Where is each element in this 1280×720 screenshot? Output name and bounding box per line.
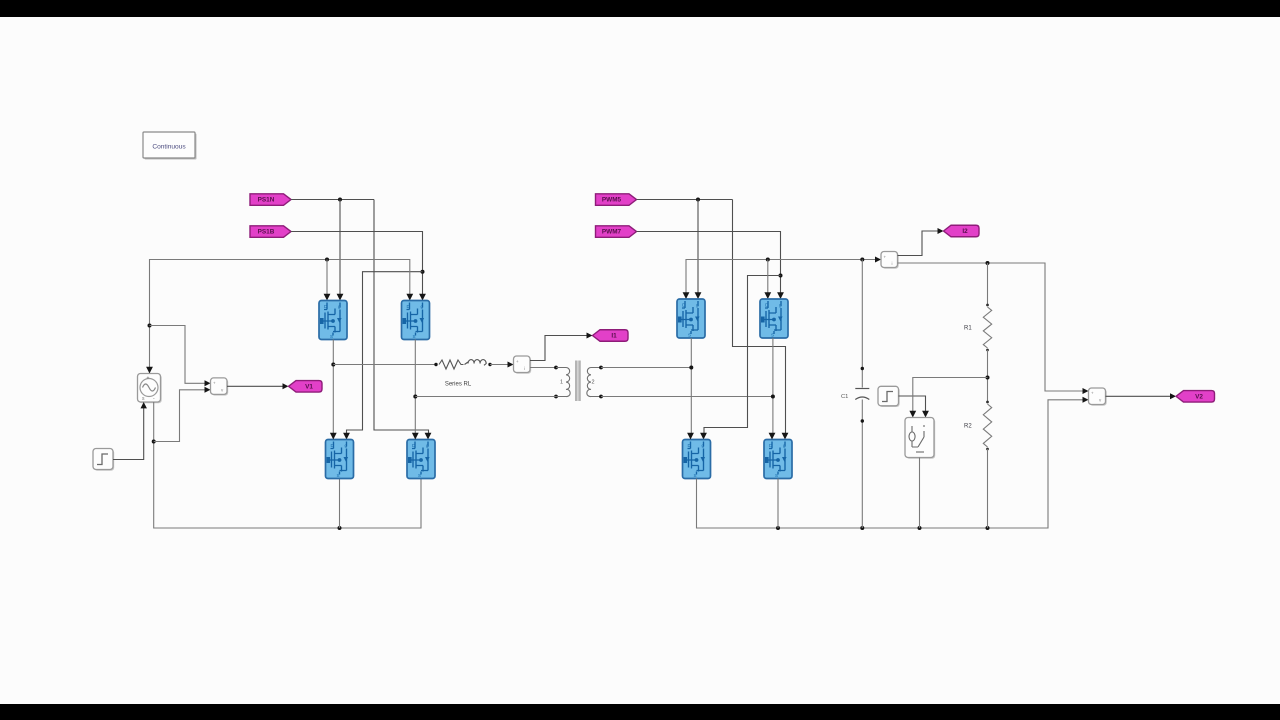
powergui Continuous block	[143, 132, 197, 160]
Step block Step2	[878, 386, 900, 407]
Goto tag I1	[593, 330, 629, 342]
wire to V1 minus input	[154, 390, 208, 442]
svg-text:+: +	[516, 359, 519, 364]
junction bottom rail C1	[860, 526, 864, 530]
svg-text:C1: C1	[841, 394, 848, 400]
junction PWM7 crossover	[779, 274, 783, 278]
MOSFET Q8	[764, 440, 792, 479]
arrowhead V2 goto	[1170, 393, 1176, 399]
arrowhead I2 goto	[938, 228, 944, 234]
circuit breaker block	[905, 418, 935, 459]
svg-text:S: S	[771, 333, 774, 338]
arrowhead V2 minus	[1083, 397, 1089, 403]
wire left DC+ rail	[150, 260, 410, 374]
svg-text:PS1N: PS1N	[258, 197, 275, 204]
junction divider midpoint	[986, 376, 990, 380]
junction bottom rail Q8	[776, 526, 780, 530]
wire I1 signal to tag	[530, 336, 589, 361]
wire source minus down	[154, 402, 421, 528]
arrowhead breaker top	[909, 411, 916, 418]
current measurement I1 block	[514, 356, 532, 374]
svg-text:PWM5: PWM5	[602, 197, 622, 204]
junction secondary top	[689, 366, 693, 370]
From tag PS1N	[250, 194, 291, 206]
terminal Series RL right	[488, 363, 491, 366]
From tag PWM5	[596, 194, 637, 206]
svg-text:PWM7: PWM7	[602, 229, 622, 236]
junction PS1B crossover	[421, 270, 425, 274]
svg-text:+: +	[1091, 391, 1094, 396]
wire right bridge right leg	[772, 338, 774, 436]
arrowhead I1 input	[508, 362, 514, 368]
junction out rail at R1	[986, 261, 990, 265]
svg-text:+: +	[884, 255, 887, 260]
wire PS1N corner to Q4 gate	[374, 200, 429, 437]
Step block Step1	[93, 449, 114, 471]
MOSFET Q1	[319, 301, 347, 340]
wire R1 to R2	[987, 350, 989, 402]
arrowhead Q7 gate	[700, 433, 707, 440]
wire PWM5 to Q5 gate	[697, 200, 699, 296]
svg-text:S: S	[694, 473, 697, 478]
wire I1 out to transformer	[530, 367, 556, 369]
svg-text:+: +	[147, 376, 150, 382]
arrowhead Q2 gate	[419, 294, 426, 301]
arrowhead Q1 gate	[337, 294, 344, 301]
arrowhead Q6 drain	[764, 292, 771, 299]
svg-text:V2: V2	[1195, 394, 1203, 401]
wire right bridge left leg	[690, 338, 692, 436]
From tag PS1B	[250, 226, 291, 238]
svg-text:2: 2	[592, 380, 595, 386]
arrowhead V1 plus	[205, 380, 211, 386]
arrowhead I2 input	[875, 257, 881, 263]
svg-text:S: S	[330, 334, 333, 339]
wire V1 signal out	[227, 385, 285, 387]
current measurement I2 block	[881, 252, 899, 269]
wire right bottom rail	[697, 400, 1086, 528]
svg-text:S: S	[413, 334, 416, 339]
MOSFET Q7	[683, 440, 711, 479]
Goto tag V1	[289, 381, 323, 393]
svg-text:i: i	[524, 366, 525, 371]
arrowhead Q3 gate	[343, 433, 350, 440]
arrowhead Q2 drain	[406, 294, 413, 301]
From tag PWM7	[596, 226, 637, 238]
wire Series RL to I1	[490, 364, 510, 366]
wire right leg Q2-Q4	[414, 340, 416, 436]
MOSFET Q4	[407, 440, 435, 479]
bottom letterbox bar	[0, 704, 1280, 720]
wire I2 signal to tag	[898, 231, 941, 256]
wire PWM5 corner to Q8 gate	[733, 200, 786, 437]
wire left leg Q1-Q3	[332, 340, 334, 436]
wire breaker to rail	[919, 458, 921, 529]
junction bottom rail R2	[986, 526, 990, 530]
wire Q8 source to rail	[777, 479, 779, 529]
MOSFET Q6	[760, 299, 788, 338]
junction bottom rail Q3	[338, 526, 342, 530]
junction PS1N rail	[338, 198, 342, 202]
MOSFET Q5	[677, 299, 705, 338]
svg-text:i: i	[892, 261, 893, 266]
wire R2 bottom	[987, 449, 989, 528]
svg-text:S: S	[337, 473, 340, 478]
svg-text:PS1B: PS1B	[258, 229, 275, 236]
wire PS1N rail	[291, 199, 374, 201]
wire Step1 to source s input	[113, 406, 144, 460]
svg-text:R2: R2	[964, 424, 972, 430]
junction bottom rail breaker	[918, 526, 922, 530]
wire PWM7 crossover to Q7 gate	[704, 276, 781, 437]
arrowhead Q3 drain	[330, 433, 337, 440]
svg-text:S: S	[418, 473, 421, 478]
wire C1 top	[861, 260, 863, 388]
terminal transformer secondary bottom	[599, 395, 603, 399]
resistor R2	[964, 401, 992, 451]
svg-text:1: 1	[560, 380, 563, 386]
wire R1 top	[987, 263, 989, 305]
wire PS1N to Q1 gate	[339, 200, 341, 297]
wire right DC+ to Q6 drain	[767, 260, 769, 296]
junction source minus branch	[152, 440, 156, 444]
wire to V1 plus input	[150, 326, 208, 384]
junction right DC+ at C1	[860, 258, 864, 262]
svg-text:I2: I2	[962, 228, 968, 235]
wire divider mid to breaker	[913, 378, 988, 415]
junction left leg to RL	[331, 363, 335, 367]
wire I2 out rail	[898, 263, 1086, 391]
wire PWM7 rail	[637, 232, 781, 296]
wire mid to Series RL	[333, 364, 436, 366]
Goto tag I2	[944, 225, 980, 237]
svg-text:+: +	[213, 381, 216, 386]
resistor of Series RL	[439, 360, 464, 369]
terminal C1 bottom	[861, 419, 864, 422]
top letterbox bar	[0, 0, 1280, 17]
wire PS1B crossover to Q3 gate	[347, 272, 423, 436]
transformer core	[575, 361, 581, 402]
AC voltage source Vac	[138, 374, 162, 404]
wire primary bottom to left bridge	[415, 396, 556, 398]
wire C1 bottom	[861, 400, 863, 529]
svg-text:R1: R1	[964, 326, 972, 332]
terminal C1 top	[861, 367, 864, 370]
svg-text:Series RL: Series RL	[445, 382, 472, 388]
MOSFET Q3	[326, 440, 354, 479]
terminal transformer primary top	[554, 366, 558, 370]
junction right DC+ at Q6	[766, 258, 770, 262]
arrowhead Q4 gate	[425, 433, 432, 440]
arrowhead Q5 drain	[683, 292, 690, 299]
capacitor C1 plates	[855, 389, 869, 400]
MOSFET Q2	[402, 301, 430, 340]
junction left DC+ at Q1	[325, 258, 329, 262]
terminal transformer secondary top	[599, 366, 603, 370]
wire PWM5 rail	[637, 199, 733, 201]
arrowhead Q4 drain	[412, 433, 419, 440]
arrowhead Q8 drain	[769, 433, 776, 440]
wire secondary top to right bridge	[601, 367, 691, 369]
svg-text:I1: I1	[611, 333, 617, 340]
terminal transformer primary bottom	[554, 395, 558, 399]
transformer primary winding	[556, 368, 570, 397]
arrowhead V1 goto	[283, 383, 289, 389]
junction secondary bottom	[771, 395, 775, 399]
arrowhead Q1 drain	[324, 294, 331, 301]
wire V2 signal out	[1106, 395, 1173, 397]
arrowhead breaker control	[922, 411, 929, 418]
transformer secondary winding	[587, 368, 601, 397]
inductor of Series RL	[465, 360, 487, 366]
junction left vertical to V1	[148, 324, 152, 328]
wire PS1B rail	[291, 232, 423, 297]
resistor R1	[964, 304, 992, 352]
arrowhead V2 plus	[1083, 388, 1089, 394]
voltage measurement V2 block	[1089, 388, 1107, 406]
Goto tag V2	[1176, 391, 1215, 403]
svg-text:Continuous: Continuous	[152, 144, 186, 151]
wire Q3 source to bottom rail	[339, 479, 341, 529]
arrowhead V1 minus	[205, 387, 211, 393]
terminal Series RL left	[434, 363, 437, 366]
svg-text:V1: V1	[305, 384, 313, 391]
wire right DC+ rail	[686, 260, 878, 300]
junction right leg to transformer	[413, 395, 417, 399]
voltage measurement V1 block	[211, 378, 229, 396]
arrowhead source s input	[141, 402, 147, 408]
junction PWM5 rail	[696, 198, 700, 202]
wire secondary bottom to right bridge	[601, 396, 773, 398]
arrowhead Q5 gate	[695, 292, 702, 299]
arrowhead Q8 gate	[782, 433, 789, 440]
svg-text:S: S	[688, 333, 691, 338]
svg-text:S: S	[775, 473, 778, 478]
arrowhead I1 goto	[587, 333, 593, 339]
arrowhead Q7 drain	[687, 433, 694, 440]
wire Step2 to breaker	[899, 396, 926, 414]
arrowhead Q6 gate	[777, 292, 784, 299]
wire left DC+ to Q1 drain	[326, 260, 328, 297]
arrowhead into source top	[146, 367, 153, 374]
